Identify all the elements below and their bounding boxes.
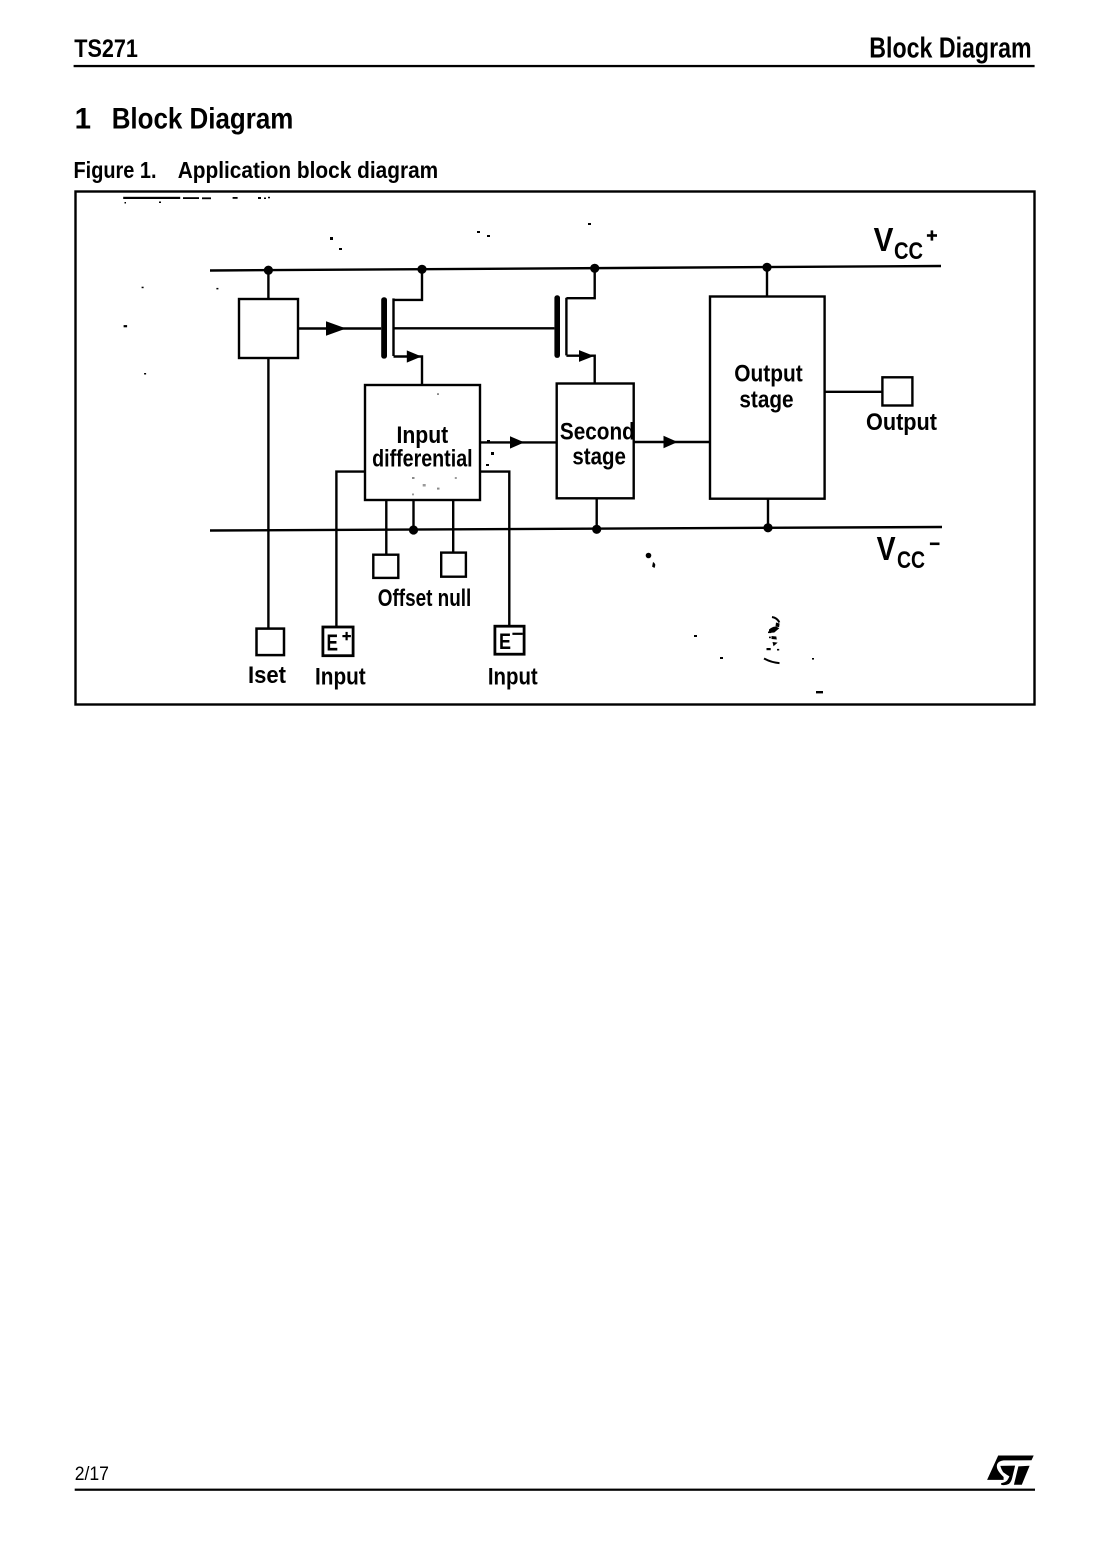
svg-text:E: E bbox=[327, 630, 339, 656]
svg-text:Figure 1.: Figure 1. bbox=[74, 157, 157, 183]
svg-text:CC: CC bbox=[894, 238, 923, 265]
svg-text:1: 1 bbox=[75, 103, 91, 136]
svg-text:CC: CC bbox=[897, 547, 925, 574]
svg-text:stage: stage bbox=[739, 387, 793, 414]
svg-text:Block Diagram: Block Diagram bbox=[869, 33, 1031, 65]
svg-text:stage: stage bbox=[572, 444, 626, 471]
svg-text:2/17: 2/17 bbox=[75, 1463, 109, 1485]
svg-text:Output: Output bbox=[734, 361, 802, 388]
svg-text:Input: Input bbox=[488, 663, 538, 690]
svg-text:differential: differential bbox=[372, 445, 473, 472]
svg-text:Iset: Iset bbox=[248, 662, 286, 689]
svg-text:Output: Output bbox=[866, 409, 937, 436]
svg-text:Application block diagram: Application block diagram bbox=[178, 157, 439, 183]
svg-text:E: E bbox=[499, 629, 511, 654]
svg-text:Offset null: Offset null bbox=[378, 585, 472, 612]
svg-text:TS271: TS271 bbox=[74, 35, 138, 63]
svg-text:V: V bbox=[874, 221, 894, 258]
svg-text:V: V bbox=[877, 530, 896, 567]
svg-text:Input: Input bbox=[315, 663, 366, 690]
svg-text:Second: Second bbox=[560, 419, 635, 446]
svg-text:Block Diagram: Block Diagram bbox=[112, 103, 294, 136]
